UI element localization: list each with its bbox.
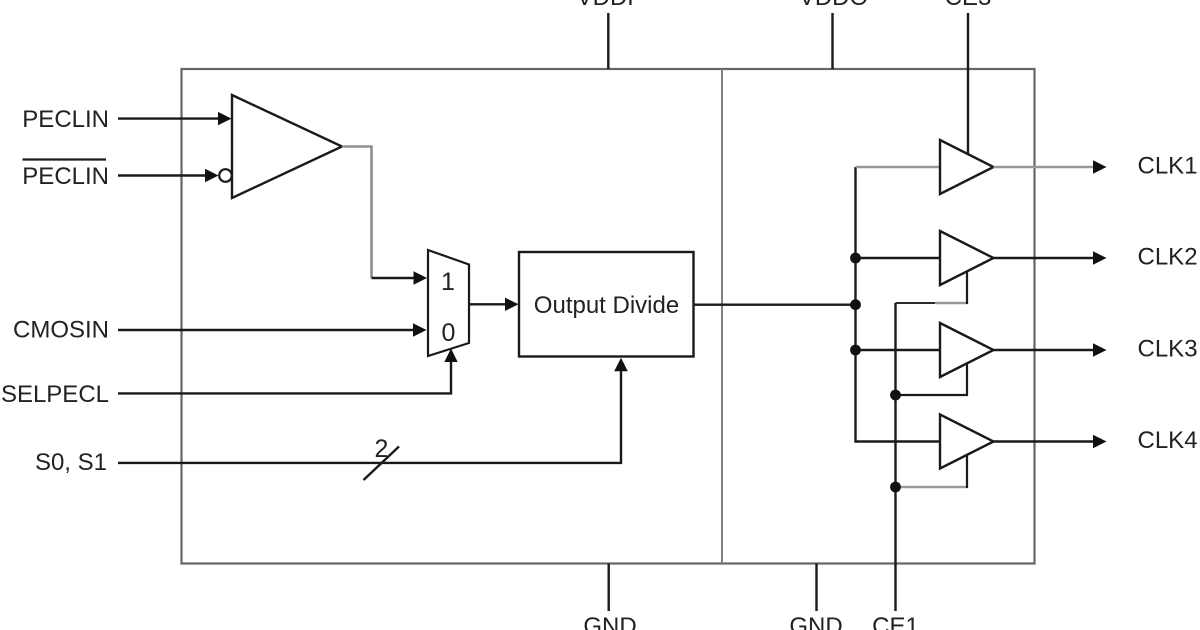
svg-text:CLK3: CLK3 [1138,336,1198,363]
svg-text:2: 2 [375,435,389,463]
wire CLK2 output [994,257,1095,259]
wire S0,S1 bus to Output Divide [118,371,621,463]
svg-text:1: 1 [441,268,455,296]
arrowhead PECLINb [205,169,219,182]
svg-text:VDDP: VDDP [577,0,644,11]
wire mux output to Output Divide [469,303,507,305]
output buffer U2 [940,140,994,194]
arrowhead S0,S1 into Output Divide [614,358,628,372]
svg-text:CLK2: CLK2 [1138,244,1198,271]
svg-text:CLK1: CLK1 [1138,153,1198,180]
junction dot node A-div [850,299,861,310]
junction dot node A2 [850,253,861,264]
mux M1 (2:1 select) [428,250,469,356]
overbar PECLINb [23,158,107,160]
arrowhead CLK3 [1093,343,1107,357]
junction dot node A3 [850,345,861,356]
wire CLK3 output [994,349,1095,351]
Output Divide block [519,252,694,357]
wire Output Divide output to distribution node [694,304,856,306]
wire into mux input 1 [372,277,416,279]
svg-text:SELPECL: SELPECL [1,381,109,408]
svg-text:VDDO: VDDO [799,0,868,11]
svg-text:0: 0 [442,319,456,347]
wire branch to buffer U4 [856,349,941,351]
arrowhead into mux input 1 [414,271,428,284]
svg-text:CE1: CE1 [872,613,919,630]
wire CE1 trunk B [896,302,936,304]
pin VDDP wire [607,13,609,69]
svg-text:Output Divide: Output Divide [534,292,679,319]
svg-text:CMOSIN: CMOSIN [13,317,109,344]
svg-text:CE3: CE3 [945,0,992,11]
arrowhead CLK2 [1093,251,1107,265]
arrowhead CLK1 [1093,160,1107,174]
wire distribution trunk A [856,167,941,442]
outer block boundary box [182,69,1035,564]
pin VDDO wire [831,13,833,69]
arrowhead PECLIN [218,112,232,125]
wire CE1 to buffer U4 enable [896,364,968,396]
wire PECLINb input [118,174,206,176]
wire branch to buffer U2 (gray) [856,166,941,169]
svg-text:GND: GND [789,613,842,630]
output buffer U4 [940,323,994,377]
internal divider wall [721,69,723,564]
arrowhead CLK4 [1093,435,1107,449]
bus width slash [364,447,400,481]
wire CE1 to buffer U5 enable [896,486,968,489]
junction dot node B1 [890,390,901,401]
svg-text:PECLIN: PECLIN [22,163,109,190]
svg-text:S0, S1: S0, S1 [35,449,107,476]
output buffer U3 [940,231,994,285]
arrowhead into mux input 0 [413,323,427,336]
pin GND wire (left) [608,564,610,612]
wire U1 output to mux input 1 (gray elbow) [342,147,372,279]
arrowhead into Output Divide [505,298,519,311]
svg-text:GND: GND [583,613,636,630]
junction dot node B2 [890,482,901,493]
wire SELPECL to mux select [118,361,451,393]
wire CE1 vertical [894,303,896,611]
wire CLK1 output (gray) [994,166,1095,169]
wire PECLIN input [118,117,219,119]
wire CLK4 output [994,440,1095,442]
input buffer U1 (PECL differential receiver) [232,95,342,198]
svg-text:PECLIN: PECLIN [22,106,109,133]
output buffer U5 [940,415,994,469]
pin CE3 wire to U2 [967,13,969,155]
wire CMOSIN input [118,329,414,331]
wire branch to buffer U3 [856,257,941,259]
inversion bubble on PECLINb input [219,169,232,182]
svg-text:CLK4: CLK4 [1138,427,1198,454]
pin GND wire (right) [815,564,817,612]
arrowhead SELPECL into mux [444,349,457,363]
